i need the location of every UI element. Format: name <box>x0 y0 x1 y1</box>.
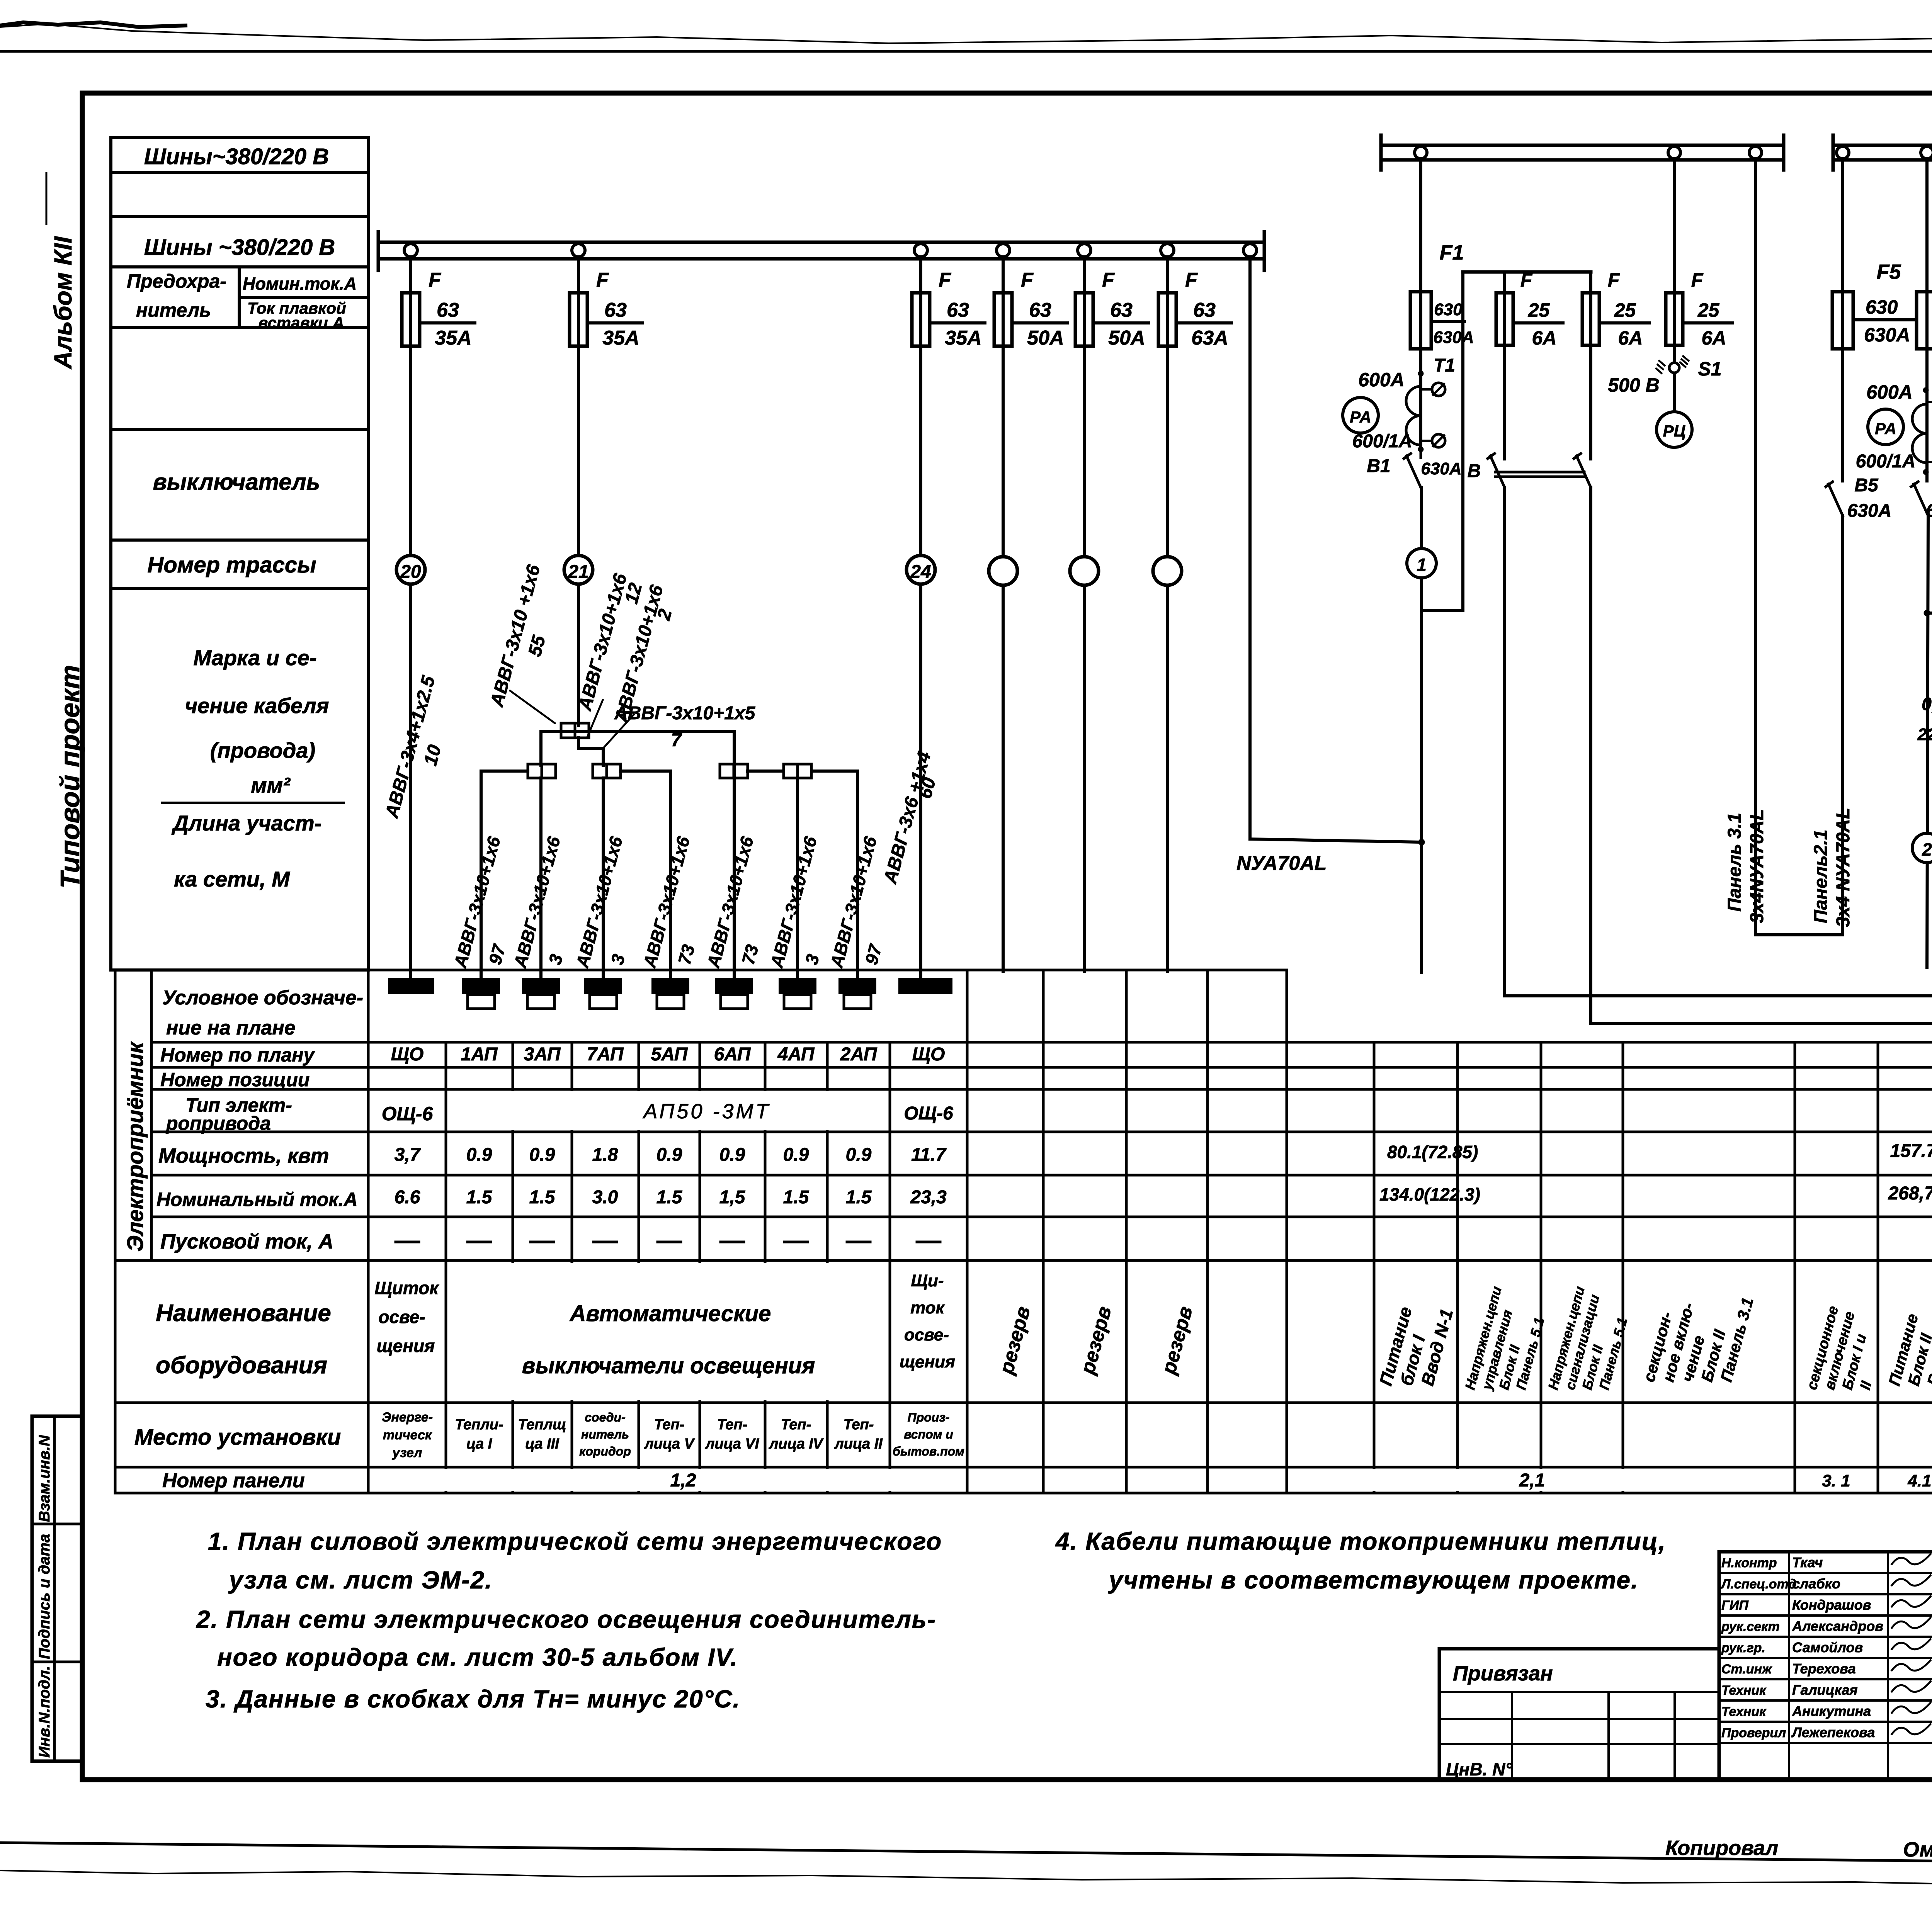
svg-text:выключатели освещения: выключатели освещения <box>522 1353 815 1378</box>
svg-text:F: F <box>1520 269 1533 291</box>
wire: branch 1400 down <box>539 778 543 978</box>
svg-text:7: 7 <box>671 730 682 751</box>
svg-text:1.8: 1.8 <box>592 1145 618 1165</box>
node: bus1 tap x=1497 <box>572 244 585 257</box>
svg-text:F5: F5 <box>1876 260 1901 284</box>
svg-text:Галицкая: Галицкая <box>1792 1682 1858 1698</box>
switch S1 (переключатель) <box>1673 363 1676 412</box>
svg-text:2,1: 2,1 <box>1519 1470 1545 1491</box>
node: bus1 tap x=2383 <box>914 244 927 257</box>
svg-text:Шины~380/220 В: Шины~380/220 В <box>144 144 329 169</box>
svg-text:Панель 3.1: Панель 3.1 <box>1725 813 1745 912</box>
svg-text:1.5: 1.5 <box>529 1187 556 1208</box>
svg-text:чение кабеля: чение кабеля <box>185 693 329 718</box>
symbol: АП щиток x=2219 <box>839 978 876 993</box>
node: bus2 tap F1 <box>1415 146 1427 159</box>
node: trace circle 20 <box>396 555 425 584</box>
svg-text:ОЩ-6: ОЩ-6 <box>382 1103 434 1125</box>
svg-text:оборудования: оборудования <box>156 1352 327 1379</box>
wire: ввод N2 (F2) <box>1925 158 1929 390</box>
svg-text:630: 630 <box>1434 300 1463 319</box>
breaker В2 <box>1911 482 1928 516</box>
svg-text:4. Кабели питающие токоприемн: 4. Кабели питающие токоприемники теплиц, <box>1055 1527 1666 1555</box>
svg-text:Длина участ-: Длина участ- <box>172 811 322 835</box>
svg-text:рук.сект: рук.сект <box>1721 1619 1780 1634</box>
outer border top line <box>0 50 1932 53</box>
wire: ввод N1 (F1) <box>1419 158 1422 371</box>
svg-text:Теп-: Теп- <box>717 1417 748 1433</box>
svg-text:50А: 50А <box>1027 327 1064 349</box>
svg-text:ка сети, М: ка сети, М <box>174 867 290 891</box>
svg-text:ОЩ-6: ОЩ-6 <box>904 1103 953 1124</box>
svg-text:3. Данные в скобках для: 3. Данные в скобках для Тн= минус 20°С. <box>206 1685 740 1713</box>
fuse F 63/50А feeder x=2806 <box>1075 293 1093 346</box>
node: bus1 tap x=2596 <box>997 244 1010 257</box>
svg-text:мм²: мм² <box>251 773 291 797</box>
svg-text:Щиток: Щиток <box>374 1278 439 1298</box>
connector: c1 <box>528 764 556 778</box>
svg-text:слабко: слабко <box>1792 1576 1840 1592</box>
junction: отбор на цепи управления <box>1924 610 1930 616</box>
svg-text:80.1(72.85): 80.1(72.85) <box>1387 1142 1478 1162</box>
breaker В (двухполюсный) <box>1488 454 1505 488</box>
svg-text:134.0(122.3): 134.0(122.3) <box>1379 1184 1480 1204</box>
svg-text:F: F <box>596 269 609 291</box>
svg-text:Электроприёмник: Электроприёмник <box>123 1041 148 1252</box>
svg-text:0.9: 0.9 <box>846 1145 872 1165</box>
svg-text:2: 2 <box>1922 839 1932 860</box>
node: bus1 tap x=3021 <box>1161 244 1174 257</box>
svg-text:В: В <box>1468 461 1481 481</box>
svg-text:В5: В5 <box>1854 475 1879 496</box>
wire: horizontal to branch 2219 <box>811 771 857 978</box>
row: Пусковой ток dashes <box>396 1241 419 1243</box>
svg-text:РА: РА <box>1875 420 1896 438</box>
fuse F 25/6А (РЦ) <box>1666 293 1683 345</box>
svg-text:Ткач: Ткач <box>1792 1554 1823 1570</box>
svg-text:Панель2.1: Панель2.1 <box>1811 829 1831 923</box>
svg-text:Альбом КII: Альбом КII <box>49 236 77 370</box>
svg-text:ца I: ца I <box>466 1436 493 1452</box>
svg-text:1АП: 1АП <box>461 1044 498 1065</box>
fuse F5 630/630А <box>1832 292 1853 349</box>
svg-text:Взам.инв.N: Взам.инв.N <box>36 1435 53 1522</box>
wire: распределение 21 <box>561 723 589 738</box>
svg-text:1.5: 1.5 <box>783 1187 810 1208</box>
svg-text:1,2: 1,2 <box>670 1470 696 1491</box>
svg-text:3х4 NУА70АL: 3х4 NУА70АL <box>1833 808 1854 927</box>
svg-text:35А: 35А <box>945 327 981 349</box>
svg-text:1: 1 <box>1417 555 1427 575</box>
svg-text:Произ-: Произ- <box>908 1410 950 1424</box>
svg-text:ЦнВ. N°: ЦнВ. N° <box>1446 1759 1512 1779</box>
svg-text:220/220В: 220/220В <box>1917 725 1932 744</box>
svg-text:11.7: 11.7 <box>911 1145 947 1165</box>
svg-text:20: 20 <box>400 562 421 582</box>
svg-text:63: 63 <box>1110 299 1133 321</box>
svg-text:Наименование: Наименование <box>156 1300 331 1327</box>
wire: feeder 24 x=2383 <box>919 257 922 978</box>
svg-text:нитель: нитель <box>136 299 211 321</box>
svg-text:63: 63 <box>437 299 459 321</box>
svg-text:рук.гр.: рук.гр. <box>1721 1641 1765 1655</box>
wire: feeder 20 x=1063 <box>409 257 412 978</box>
svg-text:NУА70АL: NУА70АL <box>1236 852 1327 875</box>
svg-text:25: 25 <box>1697 299 1720 321</box>
svg-text:630: 630 <box>1866 296 1898 318</box>
table: lower grid vertical lines <box>115 970 1932 1493</box>
svg-text:23,3: 23,3 <box>910 1187 947 1208</box>
svg-text:лица IV: лица IV <box>769 1436 824 1452</box>
node: bus3 tap F5 <box>1837 146 1849 159</box>
svg-text:ца III: ца III <box>525 1436 560 1452</box>
svg-text:63А: 63А <box>1191 327 1228 349</box>
wire: horizontal c3-c4 and branch 2064 <box>748 771 798 978</box>
wire: supply from панель 1-2 down to НУА70АЛ <box>1248 257 1252 839</box>
junction: НУА70АЛ to F1 feeder <box>1418 839 1425 845</box>
wire: feeder резерв x=2596 <box>1002 257 1005 972</box>
svg-text:630А: 630А <box>1847 501 1892 521</box>
svg-text:F: F <box>429 269 441 291</box>
symbol: ЩО производ. помещений <box>899 978 952 993</box>
svg-text:вставки.А: вставки.А <box>258 314 344 332</box>
svg-text:выключатель: выключатель <box>153 469 320 495</box>
svg-text:630А: 630А <box>1433 328 1474 347</box>
svg-text:щения: щения <box>377 1336 435 1356</box>
svg-text:Предохра-: Предохра- <box>127 270 226 292</box>
wire: right drop 1900 <box>733 732 736 978</box>
svg-text:Аникутина: Аникутина <box>1792 1703 1871 1719</box>
svg-text:6АП: 6АП <box>714 1044 751 1065</box>
node: trace circle 21 <box>564 555 593 584</box>
svg-text:F: F <box>1185 269 1198 291</box>
wire: branch 1561 down <box>602 778 605 978</box>
svg-text:Кондрашов: Кондрашов <box>1792 1597 1871 1613</box>
svg-text:Привязан: Привязан <box>1453 1662 1553 1685</box>
breaker В5 <box>1826 482 1843 516</box>
svg-text:коридор: коридор <box>579 1444 631 1458</box>
svg-text:600/1А: 600/1А <box>1856 451 1916 472</box>
svg-text:лица V: лица V <box>644 1436 695 1452</box>
svg-text:ГИП: ГИП <box>1721 1598 1749 1613</box>
svg-text:630А: 630А <box>1864 324 1910 346</box>
wire: В5 to F5 <box>1841 349 1844 481</box>
svg-text:4АП: 4АП <box>777 1044 815 1065</box>
symbol: АП щиток x=2064 <box>779 978 816 993</box>
node: trace circle 24 <box>906 555 935 584</box>
wire: fuse drop 4117 <box>1589 272 1592 459</box>
svg-text:2. План сети электрического: 2. План сети электрического освещения со… <box>196 1605 936 1633</box>
svg-text:щения: щения <box>900 1352 955 1371</box>
wire: секционное включение U-link <box>1755 158 1843 935</box>
amperemeter РА (2) <box>1868 409 1903 445</box>
svg-text:соеди-: соеди- <box>585 1410 626 1424</box>
svg-text:5АП: 5АП <box>651 1044 688 1065</box>
wire: feeder резерв x=2806 <box>1083 257 1086 972</box>
svg-text:21: 21 <box>568 562 588 582</box>
svg-text:4.1: 4.1 <box>1907 1471 1931 1490</box>
svg-text:6А: 6А <box>1702 327 1726 349</box>
svg-text:0.9: 0.9 <box>466 1145 492 1165</box>
svg-text:0.9: 0.9 <box>529 1145 555 1165</box>
symbol: АП щиток x=1245 <box>463 978 499 993</box>
svg-text:35А: 35А <box>602 327 639 349</box>
svg-text:Теп-: Теп- <box>654 1417 685 1433</box>
svg-text:3,7: 3,7 <box>395 1145 421 1165</box>
svg-text:1. План силовой электрическо: 1. План силовой электрической сети энерг… <box>208 1527 942 1555</box>
svg-text:РЦ: РЦ <box>1663 422 1686 440</box>
svg-text:F: F <box>1691 269 1704 291</box>
svg-text:0.9: 0.9 <box>783 1145 809 1165</box>
svg-text:Энерге-: Энерге- <box>382 1410 433 1425</box>
wire: fuse drop 3894 <box>1503 272 1506 459</box>
symbol: АП щиток x=1400 <box>523 978 559 993</box>
leader: АВВГ-3х10+1х6 12 <box>587 700 603 737</box>
wire: jog to П bracket 1 <box>1422 272 1463 610</box>
svg-text:ние на плане: ние на плане <box>166 1017 296 1039</box>
svg-text:ропривода: ропривода <box>165 1113 271 1134</box>
svg-text:0,63кВА: 0,63кВА <box>1922 694 1932 714</box>
symbol: АП щиток x=1561 <box>585 978 621 993</box>
title block: привязан box <box>1439 1649 1719 1780</box>
fuse F 25/6А (цепи упр.) <box>1496 293 1513 345</box>
fuse F 63/35А feeder x=1497 <box>570 293 587 346</box>
transformer T1 (трансформатор тока) <box>1418 371 1423 376</box>
svg-text:Самойлов: Самойлов <box>1792 1639 1863 1655</box>
table: lower grid horizontal lines <box>115 970 1932 1493</box>
node: bus3 tap F2 <box>1921 146 1932 159</box>
outer border bottom line <box>0 1843 1932 1867</box>
svg-text:(провода): (провода) <box>210 738 315 763</box>
table: upper header grid <box>111 138 368 970</box>
wire: вольтметр цепь <box>1673 158 1676 363</box>
svg-text:Марка и се-: Марка и се- <box>193 646 316 670</box>
connector: c2 <box>593 764 621 778</box>
svg-text:Техник: Техник <box>1721 1704 1767 1719</box>
svg-text:500 В: 500 В <box>1608 374 1659 396</box>
node: bus1 tap x=1063 <box>404 244 417 257</box>
svg-text:Проверил: Проверил <box>1721 1726 1786 1740</box>
wire: left drop to connectors <box>539 732 543 766</box>
svg-text:Мощность, квт: Мощность, квт <box>158 1144 329 1167</box>
fuse F 63/63А feeder x=3021 <box>1158 293 1176 346</box>
svg-text:1.5: 1.5 <box>846 1187 872 1208</box>
fuse F 63/50А feeder x=2596 <box>994 293 1012 346</box>
svg-text:Копировал: Копировал <box>1665 1836 1778 1860</box>
node: trace circle (empty, резерв) <box>989 557 1017 585</box>
svg-text:узла см. лист ЭМ-2.: узла см. лист ЭМ-2. <box>228 1566 493 1594</box>
fuse F 63/35А feeder x=1063 <box>402 293 420 346</box>
svg-text:лица II: лица II <box>834 1436 883 1452</box>
symbol: АП щиток x=1900 <box>716 978 752 993</box>
svg-text:Л.спец.отд: Л.спец.отд <box>1720 1577 1796 1592</box>
svg-text:ЩО: ЩО <box>912 1044 945 1065</box>
svg-text:тическ: тическ <box>383 1428 432 1442</box>
node: trace circle (empty, резерв) <box>1070 557 1099 585</box>
svg-text:Теп-: Теп- <box>844 1417 874 1433</box>
svg-text:25: 25 <box>1614 299 1636 321</box>
svg-text:F: F <box>939 269 951 291</box>
svg-text:осве-: осве- <box>378 1307 425 1327</box>
svg-text:7АП: 7АП <box>587 1044 624 1065</box>
svg-text:0.9: 0.9 <box>719 1145 745 1165</box>
wire: horizontal to branch 1245 <box>481 771 528 978</box>
svg-text:63: 63 <box>947 299 969 321</box>
svg-text:600А: 600А <box>1358 369 1405 391</box>
svg-text:600А: 600А <box>1866 381 1913 403</box>
svg-text:63: 63 <box>1193 299 1216 321</box>
svg-text:Номин.ток.А: Номин.ток.А <box>243 274 357 294</box>
svg-text:F: F <box>1102 269 1115 291</box>
node: bus2 tap секц. <box>1749 146 1762 159</box>
svg-text:63: 63 <box>1029 299 1051 321</box>
svg-text:1,5: 1,5 <box>719 1187 746 1208</box>
node: bus2 tap РЦ <box>1668 146 1680 159</box>
svg-text:3. 1: 3. 1 <box>1822 1471 1850 1490</box>
svg-text:6А: 6А <box>1618 327 1643 349</box>
svg-text:Условное обозначе-: Условное обозначе- <box>162 987 363 1009</box>
svg-text:Номинальный ток.А: Номинальный ток.А <box>156 1189 358 1210</box>
paper torn edge dark streak <box>0 22 185 27</box>
svg-text:Александров: Александров <box>1792 1618 1883 1634</box>
svg-text:35А: 35А <box>435 327 471 349</box>
wire: F1 down to panel 1.2 supply <box>1420 578 1423 973</box>
svg-text:Номер трассы: Номер трассы <box>147 552 316 578</box>
paper torn bottom edge <box>0 1870 1932 1889</box>
svg-text:Номер по плану: Номер по плану <box>160 1044 315 1066</box>
svg-text:Подпись и дата: Подпись и дата <box>36 1534 53 1659</box>
svg-text:Типовой проект: Типовой проект <box>55 665 85 888</box>
svg-text:600/1А: 600/1А <box>1352 431 1412 452</box>
wire: П bracket 1 top <box>1463 270 1591 274</box>
svg-text:Номер позиции: Номер позиции <box>160 1069 310 1091</box>
wire: below В1 <box>1420 488 1423 549</box>
svg-text:ного коридора см. лист 30-5: ного коридора см. лист 30-5 альбом IV. <box>217 1643 738 1671</box>
wire: отвод на П-скобу 2 <box>1927 275 1932 613</box>
svg-text:2АП: 2АП <box>840 1044 878 1065</box>
svg-text:24: 24 <box>910 562 931 582</box>
table: merged cells whiteout <box>448 1091 888 1130</box>
svg-text:Н.контр: Н.контр <box>1721 1556 1777 1570</box>
svg-text:Теп-: Теп- <box>781 1417 811 1433</box>
svg-text:6.6: 6.6 <box>395 1187 420 1208</box>
svg-text:3АП: 3АП <box>524 1044 561 1065</box>
voltmeter РЦ <box>1656 412 1692 447</box>
svg-text:F1: F1 <box>1439 241 1464 264</box>
svg-text:25: 25 <box>1528 299 1550 321</box>
node: bus1 tap x=2806 <box>1078 244 1091 257</box>
svg-text:Щи-: Щи- <box>911 1271 944 1290</box>
svg-text:F: F <box>1608 269 1620 291</box>
node: trace circle 2 <box>1912 833 1932 863</box>
svg-text:Шины ~380/220 В: Шины ~380/220 В <box>144 235 335 260</box>
svg-text:вспом и: вспом и <box>904 1427 953 1441</box>
wire: horizontal to branch 1735 <box>621 771 670 978</box>
fuse F 25/6А (цепи сигн.) <box>1582 293 1599 345</box>
wire: feeder резерв x=3021 <box>1166 257 1169 972</box>
svg-text:268,74: 268,74 <box>1888 1183 1932 1204</box>
node: bus1 tap x=3235 <box>1243 244 1257 257</box>
svg-text:нитель: нитель <box>581 1427 629 1441</box>
svg-text:0.9: 0.9 <box>656 1145 682 1165</box>
fuse F2 630/630А <box>1917 292 1932 349</box>
svg-text:Теплщ: Теплщ <box>518 1417 566 1433</box>
margin underline KII <box>46 173 48 224</box>
svg-text:ЩО: ЩО <box>391 1044 424 1065</box>
wire: 21 continues with jog <box>578 738 603 766</box>
svg-text:осве-: осве- <box>904 1325 949 1344</box>
svg-text:Инв.N.подл.: Инв.N.подл. <box>36 1666 53 1758</box>
svg-text:F: F <box>1021 269 1034 291</box>
leader: АВВГ-3х10+1х6 2 <box>603 715 634 749</box>
svg-text:лица VI: лица VI <box>705 1436 760 1452</box>
wire: horizontal АВВГ-3х10+1х5 <box>541 730 734 733</box>
wire: В2 down, питание Блок II <box>1927 472 1928 968</box>
svg-text:Техник: Техник <box>1721 1683 1767 1698</box>
svg-text:S1: S1 <box>1698 358 1721 380</box>
paper torn top edge <box>0 24 1932 43</box>
svg-text:АП50 -3МТ: АП50 -3МТ <box>643 1100 771 1123</box>
svg-text:50А: 50А <box>1108 327 1145 349</box>
svg-text:157.75: 157.75 <box>1890 1141 1932 1161</box>
connector: c3 <box>720 764 748 778</box>
left strip box <box>32 1416 82 1761</box>
bus: секция Блок I (шины 2) <box>1381 144 1784 147</box>
svg-text:Тепли-: Тепли- <box>455 1417 503 1433</box>
svg-text:Пусковой ток, А: Пусковой ток, А <box>160 1230 333 1253</box>
connector: c4 <box>784 764 811 778</box>
transformer T2 (трансформатор тока) <box>1923 387 1929 393</box>
node: trace circle (empty, резерв) <box>1153 557 1182 585</box>
svg-text:Т1: Т1 <box>1434 355 1455 376</box>
svg-text:Терехова: Терехова <box>1792 1661 1856 1677</box>
fuse F1 630/630А <box>1410 292 1431 349</box>
symbol: ЩО (щиток освещения) энергоузел <box>389 978 434 993</box>
svg-text:Омельченко: Омельченко <box>1903 1838 1932 1861</box>
amperemeter РА <box>1343 398 1378 433</box>
svg-text:3.0: 3.0 <box>592 1187 618 1208</box>
svg-text:3х4NУА70АL: 3х4NУА70АL <box>1747 809 1767 923</box>
svg-text:Место установки: Место установки <box>134 1425 341 1450</box>
wire: feeder 21 x=1497 <box>577 257 580 725</box>
symbol: АП щиток x=1735 <box>652 978 689 993</box>
bus: секция Блок II (шины 3) <box>1833 144 1932 147</box>
wire: F5 to bus3 <box>1841 158 1844 292</box>
svg-text:Номер панели: Номер панели <box>162 1469 305 1492</box>
leader: АВВГ-3х10+1х6 55 <box>510 691 555 723</box>
svg-text:узел: узел <box>392 1446 422 1460</box>
title block: personnel table <box>1719 1552 1932 1780</box>
node: trace circle 1 <box>1407 549 1436 578</box>
svg-text:630А: 630А <box>1421 459 1461 478</box>
svg-text:Автоматические: Автоматические <box>569 1301 771 1326</box>
breaker В1 <box>1404 449 1421 488</box>
svg-text:Ст.инж: Ст.инж <box>1721 1662 1772 1677</box>
svg-text:Лежепекова: Лежепекова <box>1791 1724 1875 1740</box>
svg-text:ток: ток <box>910 1298 945 1317</box>
svg-text:бытов.пом: бытов.пом <box>893 1444 964 1458</box>
svg-text:63: 63 <box>604 299 627 321</box>
svg-text:1.5: 1.5 <box>656 1187 683 1208</box>
fuse F 63/35А feeder x=2383 <box>912 293 930 346</box>
svg-text:В1: В1 <box>1367 456 1390 476</box>
svg-text:6А: 6А <box>1532 327 1557 349</box>
svg-text:1.5: 1.5 <box>466 1187 493 1208</box>
wire: упр. цепь down + right to контакторы <box>1505 488 1932 996</box>
bus: Шины ~380/220В (левые) <box>378 241 1264 244</box>
svg-text:учтены в соответствующем пр: учтены в соответствующем проекте. <box>1108 1566 1639 1594</box>
wire: сигн. цепь down + right <box>1591 488 1932 1024</box>
